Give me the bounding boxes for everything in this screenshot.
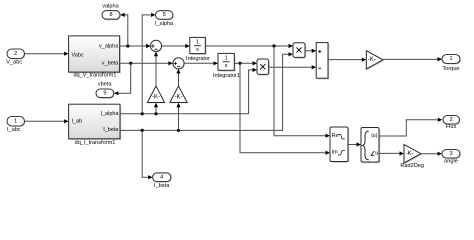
svg-text:I_abc: I_abc bbox=[7, 127, 21, 133]
wire Gain3 to sum1 minus bbox=[176, 69, 180, 86]
product block Product1 (lower x) bbox=[257, 59, 270, 76]
wire I_beta branch down to port 4 bbox=[142, 130, 152, 179]
svg-text:I_alpha: I_alpha bbox=[155, 21, 174, 27]
block Real-Imag to Complex (Re Im) bbox=[330, 127, 349, 163]
wire flux_alpha branch down to Re input bbox=[274, 46, 330, 138]
svg-text:Re: Re bbox=[332, 133, 339, 139]
wire sum1 to Integrator1 bbox=[184, 61, 218, 65]
wire I_beta row bbox=[120, 52, 293, 132]
wire Product1 to Sum2 minus bbox=[269, 65, 317, 69]
svg-text:2: 2 bbox=[450, 117, 453, 123]
wire Gain2 to sum minus bbox=[154, 52, 158, 86]
svg-text:Vabc: Vabc bbox=[72, 52, 84, 58]
wire Gain to Torque port bbox=[383, 57, 442, 61]
gain Rad2Deg bbox=[400, 145, 424, 169]
svg-text:-K-: -K- bbox=[406, 151, 414, 157]
svg-text:Im: Im bbox=[332, 150, 339, 156]
svg-text:dq_I_transform1: dq_I_transform1 bbox=[75, 140, 116, 146]
subsystem dq_I_transform1 bbox=[69, 104, 122, 146]
wire flux_beta row: Integrator1 out to Product1 (lower) bbox=[234, 61, 257, 65]
svg-text:3: 3 bbox=[449, 151, 452, 157]
svg-text:I_beta: I_beta bbox=[154, 183, 170, 189]
wire angle-u to Rad2Deg bbox=[379, 151, 404, 155]
wire Sum2 to Gain bbox=[328, 58, 366, 62]
svg-text:4: 4 bbox=[160, 174, 163, 180]
output port 1 Torque bbox=[442, 55, 461, 72]
svg-text:V_abc: V_abc bbox=[6, 59, 22, 65]
input port 2 V_abc bbox=[6, 49, 25, 65]
sum block Sum2 (rectangle +/-) bbox=[316, 43, 329, 80]
wire sum to Integrator bbox=[162, 44, 190, 48]
svg-text:I_ab: I_ab bbox=[72, 119, 83, 125]
output port 9 vbeta bbox=[96, 81, 115, 98]
integrator block Integrator bbox=[186, 37, 210, 62]
wire |u| to Flux port bbox=[379, 118, 442, 136]
svg-text:valpha: valpha bbox=[102, 3, 119, 9]
wire I_alpha branch up to port 5 bbox=[142, 13, 155, 114]
input port 1 I_abc bbox=[7, 117, 25, 133]
svg-text:v_alpha: v_alpha bbox=[99, 43, 119, 49]
wire I_abc to dq_I bbox=[25, 119, 69, 123]
svg-text:vbeta: vbeta bbox=[98, 81, 113, 87]
subsystem dq_V_transform1 bbox=[69, 36, 121, 79]
wire flux_alpha row: Integrator out to Product (upper) bbox=[205, 44, 293, 48]
svg-text:s: s bbox=[196, 47, 199, 53]
wire v_beta row bbox=[120, 61, 173, 65]
svg-text:s: s bbox=[225, 63, 228, 69]
svg-text:v_beta: v_beta bbox=[102, 61, 119, 67]
svg-text:Integrator1: Integrator1 bbox=[213, 73, 240, 79]
svg-text:Flux: Flux bbox=[446, 124, 457, 130]
product block Product (upper x) bbox=[293, 43, 306, 59]
wire I_alpha stub up to Gain2 bbox=[154, 103, 158, 114]
svg-text:1: 1 bbox=[225, 55, 228, 61]
wire V_abc to dq_V bbox=[25, 52, 69, 56]
svg-text:1: 1 bbox=[449, 56, 452, 62]
svg-text:-K-: -K- bbox=[175, 94, 183, 100]
svg-text:Integrator: Integrator bbox=[186, 56, 210, 62]
svg-text:5: 5 bbox=[163, 12, 166, 18]
gain Gain2 (-K- up, R*i_alpha) bbox=[147, 86, 165, 103]
sum circle Sum (v_alpha) bbox=[150, 40, 162, 52]
block Complex to Magnitude-Angle (|u| angle u) bbox=[361, 128, 380, 164]
output port 4 I_beta bbox=[153, 173, 172, 189]
svg-text:9: 9 bbox=[103, 91, 106, 97]
output port 8 valpha bbox=[102, 3, 121, 20]
output port 3 angle bbox=[442, 150, 461, 165]
svg-text:Torque: Torque bbox=[442, 66, 459, 72]
svg-text:1: 1 bbox=[14, 118, 17, 124]
sum circle Sum1 (v_beta) bbox=[173, 58, 185, 70]
gain Gain (-K- Torque) bbox=[366, 51, 384, 70]
wire flux_beta branch down to Im input bbox=[240, 63, 330, 155]
svg-text:Rad2Deg: Rad2Deg bbox=[400, 163, 424, 169]
wire ReIm to Complex to Mag-Angle bbox=[348, 142, 361, 146]
svg-text:1: 1 bbox=[196, 39, 199, 45]
wire branch to valpha port 8 bbox=[120, 13, 128, 46]
svg-text:-K-: -K- bbox=[152, 94, 160, 100]
svg-text:8: 8 bbox=[109, 12, 112, 18]
wire v_alpha row bbox=[120, 44, 151, 48]
svg-text:u: u bbox=[375, 151, 378, 157]
wire Rad2Deg to angle port bbox=[421, 152, 442, 156]
output port 5 I_alpha bbox=[155, 11, 174, 27]
svg-text:I_beta: I_beta bbox=[103, 127, 119, 133]
integrator block Integrator1 bbox=[213, 53, 240, 79]
svg-text:2: 2 bbox=[14, 51, 17, 57]
output port 2 Flux bbox=[443, 116, 460, 131]
svg-text:angle: angle bbox=[444, 159, 458, 165]
wire branch to vbeta port 9 bbox=[114, 63, 131, 95]
wire I_beta stub up to Gain3 bbox=[176, 103, 180, 131]
wire Product to Sum2 plus bbox=[305, 49, 316, 53]
gain Gain3 (-K- up, R*i_beta) bbox=[170, 86, 188, 103]
svg-text:-K-: -K- bbox=[368, 57, 376, 63]
svg-text:dq_V_transform1: dq_V_transform1 bbox=[73, 73, 116, 79]
wire I_alpha row bbox=[120, 68, 257, 115]
svg-text:|u|: |u| bbox=[371, 133, 377, 139]
svg-text:I_alpha: I_alpha bbox=[100, 111, 119, 117]
